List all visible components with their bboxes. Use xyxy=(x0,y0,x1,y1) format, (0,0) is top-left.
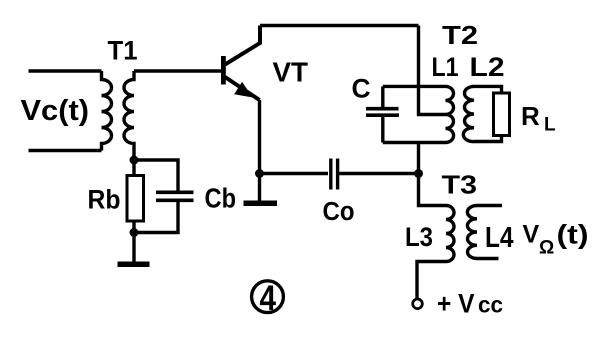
wire: cap bottom to loop bottom xyxy=(134,202,178,233)
wire: tank bottom xyxy=(383,141,446,144)
svg-text:T1: T1 xyxy=(108,35,138,65)
node: T1 secondary / Rb junction xyxy=(130,156,139,165)
wire: collector top rail xyxy=(260,24,419,27)
wire: node to parallel-cap branch top xyxy=(134,160,178,191)
ground (below Rb) xyxy=(118,262,150,268)
svg-text:Vc(t): Vc(t) xyxy=(21,95,90,127)
transistor VT collector xyxy=(225,26,260,65)
svg-text:T3: T3 xyxy=(442,169,478,199)
capacitor C top plate xyxy=(366,107,399,111)
node: tank bottom junction xyxy=(414,169,423,178)
svg-text:+ V: + V xyxy=(437,289,475,319)
svg-text:L2: L2 xyxy=(470,52,505,82)
svg-text:R: R xyxy=(521,101,540,131)
wire: top rail down to L1 tap xyxy=(419,26,447,115)
wire: L3 bottom xyxy=(417,262,446,299)
transformer T1 secondary winding xyxy=(124,71,134,160)
wire: input bottom xyxy=(29,149,102,152)
svg-text:VT: VT xyxy=(273,56,309,87)
svg-text:L: L xyxy=(544,115,556,136)
inductor L3 winding xyxy=(446,206,454,262)
svg-text:Ω: Ω xyxy=(539,238,554,259)
svg-text:4: 4 xyxy=(260,279,277,318)
wire: base wire xyxy=(134,69,221,72)
wire: L4 top output xyxy=(477,204,502,207)
svg-text:L1: L1 xyxy=(432,52,459,82)
inductor L2 winding xyxy=(463,86,474,141)
capacitor Co right plate xyxy=(336,159,339,190)
capacitor (parallel with Rb) bottom plate xyxy=(156,199,194,203)
svg-text:Cb: Cb xyxy=(205,183,237,214)
svg-text:cc: cc xyxy=(478,292,503,318)
svg-text:T2: T2 xyxy=(442,20,478,50)
svg-text:L3: L3 xyxy=(405,222,433,252)
terminal: Vcc xyxy=(413,299,423,309)
wire: RL bottom to L2 bottom xyxy=(474,136,502,142)
wire: emitter down to node xyxy=(258,100,261,201)
wire: node down to L3 top xyxy=(419,174,447,206)
wire: input top xyxy=(29,69,102,72)
resistor RL body xyxy=(494,93,510,136)
capacitor C bottom lead xyxy=(381,117,384,143)
wire: L2 top to RL xyxy=(474,86,502,93)
resistor Rb body xyxy=(132,160,135,233)
ground Cb (emitter bypass) xyxy=(244,201,278,207)
figure number circle 4 xyxy=(252,281,284,313)
capacitor C bottom plate xyxy=(366,113,399,117)
transistor VT base bar xyxy=(221,56,226,85)
wire: tank bottom to node xyxy=(417,143,420,174)
svg-text:C: C xyxy=(352,73,371,103)
inductor L1 winding xyxy=(446,86,454,142)
node: Rb bottom junction xyxy=(130,228,139,237)
svg-text:V: V xyxy=(523,220,540,248)
transistor VT emitter xyxy=(225,77,260,100)
capacitor C branch top lead xyxy=(381,86,384,107)
emitter arrow xyxy=(236,84,250,96)
transformer T1 primary winding xyxy=(102,71,112,151)
capacitor (parallel with Rb) top plate xyxy=(156,191,194,195)
capacitor Co left plate xyxy=(329,159,332,190)
svg-text:Co: Co xyxy=(323,198,355,226)
wire: Co to tank node xyxy=(339,172,419,175)
svg-text:Rb: Rb xyxy=(88,185,121,215)
wire: tank top xyxy=(383,85,446,88)
wire: emitter node to Co xyxy=(260,172,329,175)
svg-text:L4: L4 xyxy=(485,222,514,254)
svg-text:(t): (t) xyxy=(557,220,589,250)
inductor L4 winding xyxy=(467,206,477,259)
node: emitter junction xyxy=(255,169,264,178)
wire: Rb bottom to ground xyxy=(132,233,135,262)
wire: L4 bottom output xyxy=(477,257,499,260)
